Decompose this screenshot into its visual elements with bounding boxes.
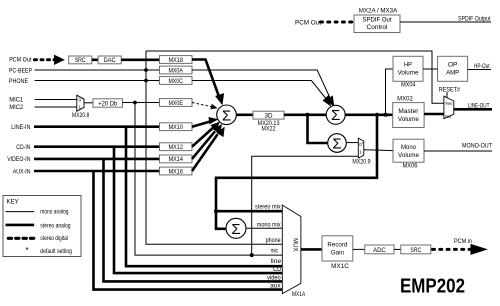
svg-text:MX1C: MX1C: [331, 264, 349, 270]
svg-text:MX02: MX02: [397, 97, 413, 103]
svg-text:MX20.8: MX20.8: [72, 113, 90, 119]
svg-text:HP: HP: [404, 62, 412, 69]
svg-text:video: video: [267, 275, 281, 281]
svg-text:OP: OP: [448, 62, 458, 69]
svg-text:MX0E: MX0E: [168, 100, 183, 107]
svg-text:Volume: Volume: [398, 152, 419, 159]
svg-text:MX10: MX10: [168, 124, 183, 131]
svg-text:PCM in: PCM in: [454, 238, 472, 245]
svg-text:PC-BEEP: PC-BEEP: [9, 67, 32, 74]
svg-text:SPDIF Output: SPDIF Output: [458, 16, 491, 22]
svg-text:DAC: DAC: [104, 57, 116, 64]
svg-text:SRC: SRC: [75, 57, 86, 64]
svg-text:MX2A / MX3A: MX2A / MX3A: [359, 9, 398, 15]
svg-text:Σ: Σ: [331, 107, 340, 124]
svg-text:Volume: Volume: [398, 70, 419, 77]
svg-text:PCM Out: PCM Out: [295, 19, 321, 26]
svg-text:+20 Db: +20 Db: [98, 100, 117, 107]
svg-text:MX12: MX12: [168, 144, 183, 151]
svg-text:VIDEO-IN: VIDEO-IN: [7, 156, 31, 163]
svg-text:Σ: Σ: [222, 107, 231, 124]
svg-text:MONO-OUT: MONO-OUT: [462, 142, 492, 149]
svg-text:mic: mic: [271, 249, 278, 255]
svg-text:Volume: Volume: [398, 116, 419, 123]
svg-text:LINE-IN: LINE-IN: [11, 124, 31, 131]
svg-text:SRC: SRC: [410, 247, 421, 254]
svg-text:Yes: Yes: [445, 101, 453, 106]
svg-text:SPDIF Out: SPDIF Out: [363, 18, 392, 24]
svg-text:MX1A: MX1A: [292, 292, 305, 298]
svg-text:CD-IN: CD-IN: [16, 144, 31, 151]
svg-text:HP-Out: HP-Out: [474, 63, 490, 70]
svg-text:default setting: default setting: [40, 249, 72, 255]
svg-text:stereo mix: stereo mix: [255, 204, 281, 210]
svg-text:Mono: Mono: [401, 144, 416, 151]
svg-text:line: line: [271, 259, 282, 265]
svg-text:*: *: [26, 246, 29, 255]
svg-text:Control: Control: [367, 25, 388, 31]
svg-text:CD: CD: [273, 267, 282, 273]
svg-text:mono mix: mono mix: [257, 222, 281, 228]
svg-text:RESET#: RESET#: [439, 86, 461, 93]
svg-text:mono analog: mono analog: [40, 210, 68, 216]
svg-text:MIC2: MIC2: [9, 104, 23, 111]
svg-text:*: *: [82, 96, 84, 101]
svg-text:Σ: Σ: [231, 221, 240, 238]
svg-text:MX04: MX04: [401, 83, 416, 89]
svg-text:MX06: MX06: [403, 164, 419, 170]
svg-text:PCM Out: PCM Out: [9, 56, 31, 63]
svg-text:stereo analog: stereo analog: [40, 223, 70, 229]
svg-text:Master: Master: [398, 108, 419, 115]
svg-text:LINE-OUT: LINE-OUT: [468, 102, 490, 109]
svg-text:MIC1: MIC1: [9, 97, 23, 104]
svg-text:*: *: [362, 141, 364, 146]
svg-text:Record: Record: [327, 241, 347, 248]
svg-text:MX14: MX14: [168, 156, 183, 163]
svg-text:3D: 3D: [265, 112, 273, 119]
svg-text:MX18: MX18: [168, 57, 183, 64]
svg-text:MX22: MX22: [262, 126, 277, 132]
svg-text:MX0A: MX0A: [168, 67, 183, 74]
svg-text:Σ: Σ: [332, 135, 341, 152]
svg-text:PHONE: PHONE: [9, 78, 28, 85]
svg-text:Gain: Gain: [331, 249, 344, 256]
svg-text:MX16: MX16: [168, 168, 183, 175]
svg-text:phone: phone: [266, 238, 282, 244]
svg-text:AMP: AMP: [446, 70, 459, 77]
svg-text:AUX-IN: AUX-IN: [13, 168, 31, 175]
svg-text:MX0C: MX0C: [168, 78, 183, 85]
svg-text:MX20.9: MX20.9: [352, 159, 371, 165]
svg-text:EMP202: EMP202: [400, 276, 465, 298]
svg-text:aux: aux: [270, 284, 281, 290]
svg-text:stereo digital: stereo digital: [40, 236, 68, 242]
svg-text:No: No: [445, 114, 451, 119]
svg-text:ADC: ADC: [373, 247, 386, 254]
svg-text:MUX: MUX: [292, 238, 298, 251]
svg-text:KEY: KEY: [7, 199, 20, 206]
